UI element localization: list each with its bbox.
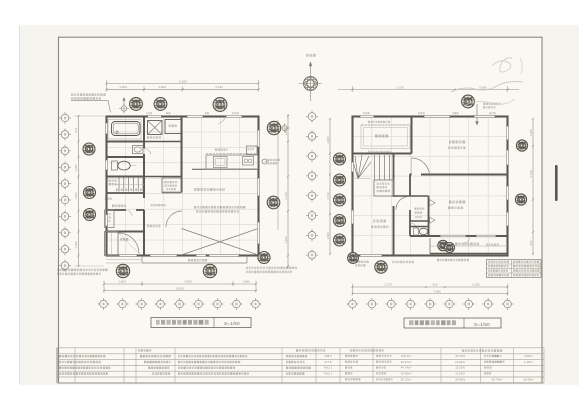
svg-text:2,730: 2,730 (326, 192, 330, 199)
svg-text:1,820: 1,820 (326, 136, 330, 143)
svg-text:2,730: 2,730 (396, 85, 404, 89)
svg-text:87.12m²: 87.12m² (401, 377, 412, 381)
svg-text:70x2.1: 70x2.1 (324, 371, 333, 375)
svg-text:910: 910 (74, 127, 78, 132)
svg-text:158.0: 158.0 (324, 354, 332, 358)
svg-text:S=1/50: S=1/50 (474, 322, 490, 327)
svg-text:1,820: 1,820 (118, 280, 126, 284)
svg-text:1.35m²: 1.35m² (493, 354, 502, 358)
svg-text:42.06m²: 42.06m² (401, 371, 412, 375)
svg-text:46.37m²: 46.37m² (401, 360, 412, 364)
svg-text:3,640: 3,640 (215, 85, 223, 89)
svg-text:9,100: 9,100 (176, 286, 184, 290)
svg-text:910: 910 (529, 240, 533, 245)
svg-text:4.50m²: 4.50m² (524, 354, 533, 358)
svg-text:910: 910 (432, 283, 437, 287)
svg-text:1,820: 1,820 (74, 241, 78, 248)
svg-text:9,100: 9,100 (179, 79, 187, 83)
svg-text:26.55%: 26.55% (455, 377, 465, 381)
svg-text:14.92%: 14.92% (455, 360, 465, 364)
svg-text:3,185: 3,185 (472, 283, 480, 287)
svg-text:7,280: 7,280 (433, 289, 441, 293)
svg-text:4,550: 4,550 (184, 280, 192, 284)
svg-text:46.73%: 46.73% (455, 354, 465, 358)
svg-text:1,820: 1,820 (119, 85, 127, 89)
svg-text:5,005: 5,005 (479, 85, 487, 89)
svg-text:11.52%: 11.52% (455, 371, 465, 375)
svg-text:1.40m²: 1.40m² (524, 360, 533, 364)
svg-text:1,820: 1,820 (74, 192, 78, 199)
svg-text:1,365: 1,365 (74, 164, 78, 171)
svg-text:1,820: 1,820 (284, 236, 288, 243)
svg-text:156.4m²: 156.4m² (401, 354, 412, 358)
svg-text:70x2.1: 70x2.1 (324, 366, 333, 370)
svg-text:2,730: 2,730 (284, 192, 288, 199)
svg-text:2,275: 2,275 (384, 283, 392, 287)
svg-text:2,730: 2,730 (529, 170, 533, 177)
svg-text:S=1/50: S=1/50 (224, 321, 240, 326)
svg-text:42.74m²: 42.74m² (492, 377, 503, 381)
svg-text:277.8: 277.8 (324, 360, 332, 364)
svg-text:26.40m²: 26.40m² (523, 377, 534, 381)
svg-text:1,060: 1,060 (242, 280, 250, 284)
svg-text:44.74m²: 44.74m² (401, 366, 412, 370)
svg-text:1,820: 1,820 (158, 85, 166, 89)
svg-text:1,820: 1,820 (326, 232, 330, 239)
svg-text:1,365: 1,365 (529, 129, 533, 136)
svg-text:11.52%: 11.52% (455, 366, 465, 370)
